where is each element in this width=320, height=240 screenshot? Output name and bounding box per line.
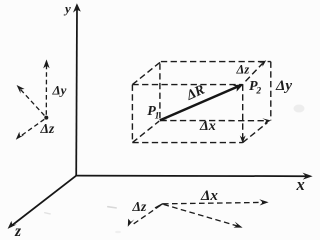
svg-text:z: z bbox=[14, 223, 21, 240]
svg-text:Δx: Δx bbox=[200, 188, 218, 204]
svg-text:y: y bbox=[63, 1, 71, 16]
svg-text:Δx: Δx bbox=[199, 119, 216, 134]
svg-text:Δz: Δz bbox=[132, 199, 147, 214]
svg-text:x: x bbox=[296, 175, 305, 194]
svg-text:Δy: Δy bbox=[275, 78, 292, 94]
svg-text:Δy: Δy bbox=[52, 83, 67, 98]
svg-text:Δz: Δz bbox=[40, 121, 55, 136]
svg-text:Δz: Δz bbox=[236, 63, 250, 77]
